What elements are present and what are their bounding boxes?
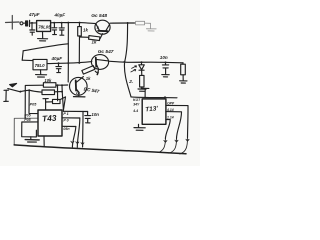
- svg-text:4-4: 4-4: [132, 109, 138, 113]
- resistor R1 1k (vertical at x79.5): [78, 22, 89, 36]
- ground under U2: [36, 70, 47, 77]
- wire vertical x68 down to Q3 base: [67, 23, 69, 82]
- svg-text:78L05: 78L05: [38, 25, 51, 30]
- svg-text:T43: T43: [42, 113, 57, 124]
- switch S1 lever with arrow: [8, 83, 22, 92]
- wire U3 pin row 1 to C7 and down to bus with arrow: [63, 111, 87, 147]
- wire junction down to C7 row: [62, 85, 63, 111]
- ground under C6: [162, 75, 169, 77]
- ground under R5: [138, 89, 146, 91]
- IC U3 T43: [24, 110, 70, 136]
- svg-text:BC 547: BC 547: [83, 86, 100, 94]
- svg-text:P05: P05: [24, 118, 31, 122]
- svg-text:05n: 05n: [63, 127, 70, 131]
- wire nested bracket x29.2 to U3 pin1: [29, 90, 38, 113]
- svg-text:34Y: 34Y: [133, 102, 140, 106]
- wire U2 output to Q2 base: [47, 62, 92, 65]
- svg-text:2.: 2.: [128, 79, 133, 84]
- svg-text:40µF: 40µF: [54, 13, 66, 18]
- regulator U2 78L05: [33, 59, 47, 69]
- svg-text:P 0: P 0: [63, 119, 68, 123]
- svg-text:47µF: 47µF: [28, 12, 40, 17]
- wire U3 pin row 2 down to bus with arrow: [62, 118, 80, 148]
- svg-text:10k: 10k: [44, 78, 52, 83]
- power tap T above U4: [141, 88, 149, 97]
- electrode terminal I: [4, 90, 9, 101]
- svg-text:Gc 548: Gc 548: [91, 13, 107, 19]
- svg-text:10n: 10n: [160, 55, 168, 60]
- wire vertical x79.4 from R1 down to Q2 base rail: [78, 36, 80, 63]
- capacitor C5 40uF: [51, 56, 63, 73]
- transistor Q3 BC547: [70, 77, 101, 95]
- bottom bus wire: [14, 145, 186, 154]
- junction to Q3 base: [57, 84, 68, 92]
- capacitor C4 40uF: [54, 13, 66, 36]
- svg-text:1k: 1k: [92, 40, 97, 45]
- svg-text:1.14: 1.14: [167, 115, 174, 119]
- ground under U1: [38, 32, 48, 41]
- resistor R2 1k (tilted, to Q1 base): [80, 34, 103, 45]
- ground under R6: [180, 81, 187, 83]
- wire junction down to R9 right end: [57, 85, 59, 101]
- resistor R4 1k (diagonal, Q3 collector to Q2 emitter): [81, 66, 97, 82]
- svg-text:T13': T13': [145, 105, 159, 113]
- wire U4 right pin 3 to bus with arrow: [158, 120, 170, 153]
- wire loop to U2 input: [22, 44, 68, 61]
- capacitor C1 47uF: [26, 12, 40, 26]
- ground under Q3 emitter: [74, 96, 85, 98]
- IC U4 T13: [132, 95, 175, 124]
- regulator U1 78L05: [37, 21, 52, 32]
- svg-text:P 1: P 1: [63, 112, 68, 116]
- input terminal node: [20, 22, 23, 25]
- ground bottom left of U3: [25, 137, 39, 142]
- wire U3 bottom to bus: [43, 136, 45, 147]
- svg-text:1k: 1k: [83, 27, 88, 32]
- capacitor C3: [52, 22, 57, 35]
- svg-text:10n: 10n: [91, 112, 99, 117]
- wire vertical x127.6 down to U4 top rail: [124, 23, 131, 97]
- svg-text:P05: P05: [24, 113, 31, 117]
- resistor R5 (under LED): [140, 70, 144, 88]
- wire C1 to U1: [30, 22, 36, 24]
- wire switch row to R8: [29, 90, 42, 92]
- resistor R7 10k: [43, 78, 62, 87]
- plus polarity marker: [6, 16, 20, 30]
- resistor R3 (top right, light pencil): [135, 21, 150, 25]
- wire bracket x14.2 U3 pin row B to bottom bus: [14, 118, 38, 145]
- wire U4 right pin 2 to bus with arrow: [166, 112, 182, 154]
- svg-text:1k: 1k: [86, 76, 91, 81]
- wire 5V rail top: [51, 22, 135, 25]
- ground top right (light pencil): [146, 23, 156, 31]
- wire bracket x25.2 from R7 row down to pin row B: [24, 85, 43, 119]
- svg-text:40µF: 40µF: [51, 56, 63, 61]
- resistor R6 (far right): [181, 63, 186, 81]
- wire bracket x21.7 U3 pin row C down to ground run: [22, 122, 38, 137]
- capacitor C2 (input bypass): [30, 22, 35, 35]
- wire U4 right pin 1 to bus with arrow: [166, 105, 189, 154]
- svg-text:Gc 547: Gc 547: [98, 49, 114, 55]
- wire input to C1: [23, 22, 25, 24]
- wire switch to node: [20, 89, 30, 91]
- svg-text:78L0: 78L0: [35, 63, 46, 68]
- capacitor C6 10n: [160, 55, 169, 74]
- wire top rail over U4: [131, 96, 177, 99]
- junction node at x68: [67, 22, 69, 24]
- transistor Q2 BC547: [91, 49, 113, 75]
- LED D1 with arrows: [128, 62, 144, 84]
- wire U3 pin row 3 down to bus with arrow: [62, 126, 76, 147]
- resistor R8: [42, 90, 62, 95]
- ground bottom left of U4: [134, 124, 145, 130]
- transistor Q1 BC548: [91, 13, 110, 34]
- wire rail Q2 collector to right: [109, 61, 183, 64]
- capacitor C7 10n: [85, 112, 99, 123]
- svg-text:P05: P05: [30, 103, 38, 107]
- junction at x127.6 top rail: [127, 22, 129, 24]
- resistor R9 (small box above U3): [30, 97, 66, 110]
